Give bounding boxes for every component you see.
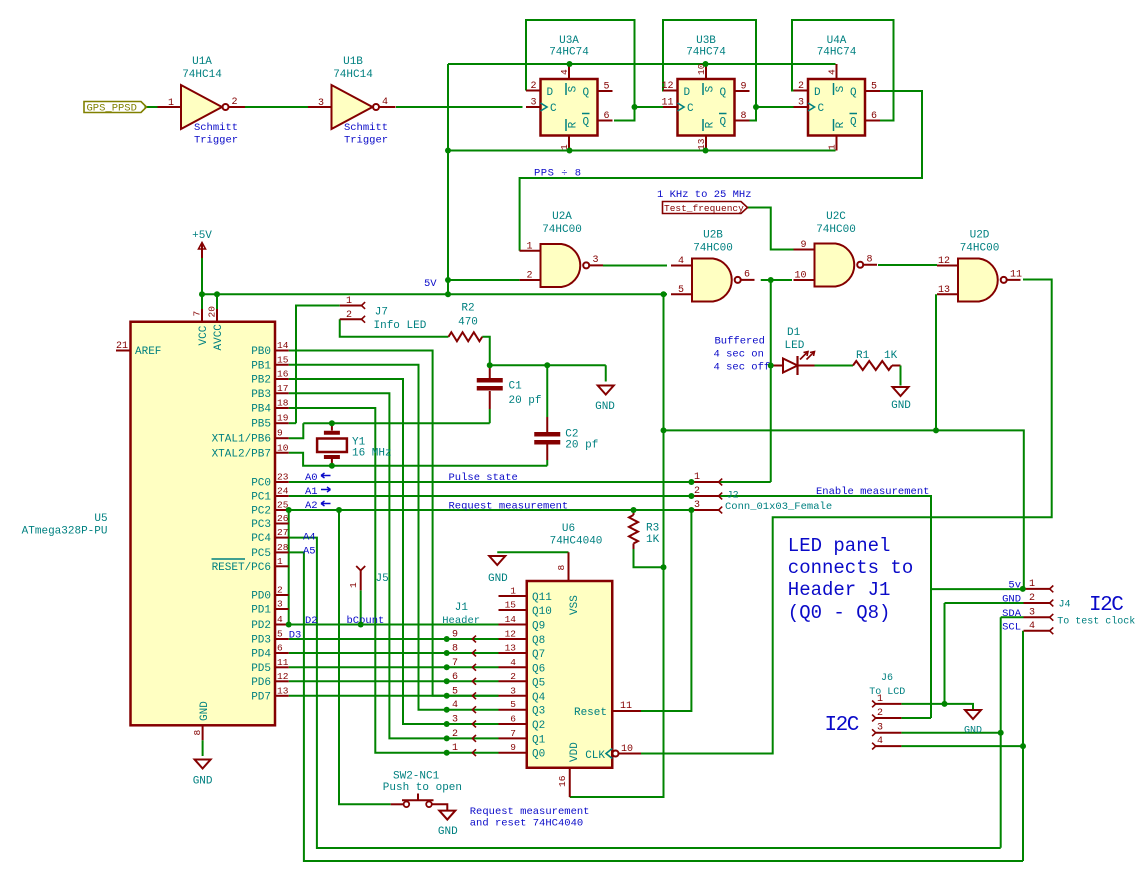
svg-text:Buffered: Buffered xyxy=(715,336,765,348)
svg-text:I2C: I2C xyxy=(825,714,859,737)
svg-text:PC3: PC3 xyxy=(251,519,271,531)
svg-text:9: 9 xyxy=(800,240,806,251)
svg-text:PC4: PC4 xyxy=(251,533,271,545)
svg-text:To test clock: To test clock xyxy=(1057,616,1135,628)
svg-text:2: 2 xyxy=(526,271,532,282)
svg-text:VCC: VCC xyxy=(198,325,210,345)
svg-text:U5: U5 xyxy=(94,513,107,525)
svg-text:Header J1: Header J1 xyxy=(788,579,891,601)
svg-text:16: 16 xyxy=(557,775,568,787)
svg-text:5: 5 xyxy=(871,82,877,93)
svg-text:I2C: I2C xyxy=(1089,594,1123,617)
svg-text:14: 14 xyxy=(277,340,289,351)
svg-text:21: 21 xyxy=(116,341,128,352)
svg-text:1: 1 xyxy=(877,694,883,705)
svg-text:R1: R1 xyxy=(856,350,870,362)
svg-text:PD5: PD5 xyxy=(251,663,271,675)
svg-text:2: 2 xyxy=(877,708,883,719)
svg-text:R: R xyxy=(835,121,847,128)
svg-text:PC0: PC0 xyxy=(251,478,271,490)
svg-text:Q: Q xyxy=(583,87,590,99)
svg-text:9: 9 xyxy=(452,630,458,641)
svg-text:74HC74: 74HC74 xyxy=(549,47,589,59)
svg-text:D1: D1 xyxy=(787,327,801,339)
svg-text:1: 1 xyxy=(348,582,359,588)
svg-text:6: 6 xyxy=(510,714,516,725)
svg-text:Q9: Q9 xyxy=(532,621,545,633)
svg-text:SCL: SCL xyxy=(1002,621,1021,633)
svg-text:1: 1 xyxy=(510,586,516,597)
svg-text:A4: A4 xyxy=(303,532,316,544)
svg-text:PPS ÷ 8: PPS ÷ 8 xyxy=(534,168,582,180)
svg-text:5: 5 xyxy=(510,699,516,710)
svg-text:2: 2 xyxy=(1029,593,1035,604)
svg-text:GND: GND xyxy=(199,701,211,721)
svg-text:1K: 1K xyxy=(884,350,898,362)
svg-text:C: C xyxy=(687,103,694,115)
svg-text:To LCD: To LCD xyxy=(869,687,905,698)
svg-text:S: S xyxy=(835,85,847,92)
svg-text:1: 1 xyxy=(827,144,838,150)
svg-text:Q4: Q4 xyxy=(532,692,546,704)
svg-text:U3B: U3B xyxy=(696,35,716,47)
svg-text:Q5: Q5 xyxy=(532,677,545,689)
svg-text:U1A: U1A xyxy=(192,56,212,68)
svg-text:9: 9 xyxy=(741,82,747,93)
svg-text:1 KHz to 25 MHz: 1 KHz to 25 MHz xyxy=(657,189,752,201)
svg-text:A5: A5 xyxy=(303,546,316,558)
svg-text:VSS: VSS xyxy=(569,595,581,615)
svg-text:Q: Q xyxy=(720,87,727,99)
svg-text:2: 2 xyxy=(232,97,238,108)
svg-text:19: 19 xyxy=(277,413,289,424)
svg-text:PB3: PB3 xyxy=(251,389,271,401)
svg-text:2: 2 xyxy=(694,486,700,497)
svg-text:SW2-NC1: SW2-NC1 xyxy=(393,770,440,782)
svg-text:3: 3 xyxy=(877,723,883,734)
svg-text:2: 2 xyxy=(510,671,516,682)
svg-text:74HC14: 74HC14 xyxy=(333,69,373,81)
svg-text:Q10: Q10 xyxy=(532,606,552,618)
svg-text:Request measurement: Request measurement xyxy=(449,501,569,513)
svg-text:Enable measurement: Enable measurement xyxy=(816,486,929,498)
svg-text:17: 17 xyxy=(277,383,288,394)
svg-text:12: 12 xyxy=(661,81,673,92)
svg-text:18: 18 xyxy=(277,398,289,409)
svg-text:16 MHz: 16 MHz xyxy=(352,448,392,460)
svg-text:PB4: PB4 xyxy=(251,404,271,416)
svg-text:PB5: PB5 xyxy=(251,419,271,431)
svg-text:3: 3 xyxy=(277,599,283,610)
svg-text:4: 4 xyxy=(827,69,838,75)
svg-text:D: D xyxy=(814,87,821,99)
svg-text:J1: J1 xyxy=(455,602,469,614)
svg-text:11: 11 xyxy=(620,701,632,712)
svg-text:3: 3 xyxy=(318,98,324,109)
svg-text:74HC14: 74HC14 xyxy=(182,69,222,81)
svg-text:PC5: PC5 xyxy=(251,548,271,560)
svg-text:Q7: Q7 xyxy=(532,649,545,661)
svg-text:5: 5 xyxy=(452,686,458,697)
svg-text:R3: R3 xyxy=(646,523,659,535)
svg-text:Schmitt: Schmitt xyxy=(194,122,238,134)
svg-text:and reset 74HC4040: and reset 74HC4040 xyxy=(470,818,583,830)
svg-text:13: 13 xyxy=(277,685,289,696)
svg-text:Q8: Q8 xyxy=(532,635,545,647)
svg-text:U2D: U2D xyxy=(970,230,990,242)
svg-text:10: 10 xyxy=(794,271,806,282)
svg-text:8: 8 xyxy=(192,730,203,736)
svg-text:26: 26 xyxy=(277,513,289,524)
svg-text:PD6: PD6 xyxy=(251,677,271,689)
svg-text:AVCC: AVCC xyxy=(213,324,225,351)
svg-text:GND: GND xyxy=(1002,594,1021,606)
svg-text:PD3: PD3 xyxy=(251,635,271,647)
svg-text:8: 8 xyxy=(556,565,567,571)
svg-text:4 sec on: 4 sec on xyxy=(714,349,764,361)
svg-text:XTAL1/PB6: XTAL1/PB6 xyxy=(212,434,271,446)
svg-text:9: 9 xyxy=(510,742,516,753)
svg-text:5: 5 xyxy=(604,82,610,93)
svg-text:R: R xyxy=(568,121,580,128)
svg-text:J6: J6 xyxy=(881,673,893,684)
svg-text:Q3: Q3 xyxy=(532,706,545,718)
svg-text:27: 27 xyxy=(277,527,288,538)
svg-text:5V: 5V xyxy=(424,278,437,290)
svg-text:8: 8 xyxy=(452,644,458,655)
svg-text:bCount: bCount xyxy=(347,615,385,627)
svg-text:6: 6 xyxy=(277,643,283,654)
svg-text:1: 1 xyxy=(346,296,352,307)
svg-text:6: 6 xyxy=(452,672,458,683)
svg-text:11: 11 xyxy=(277,657,289,668)
svg-text:S: S xyxy=(568,85,580,92)
svg-text:XTAL2/PB7: XTAL2/PB7 xyxy=(212,448,271,460)
svg-text:3: 3 xyxy=(1029,607,1035,618)
svg-text:4: 4 xyxy=(510,657,516,668)
svg-text:1: 1 xyxy=(526,241,532,252)
svg-text:4: 4 xyxy=(1029,621,1035,632)
svg-text:RESET/PC6: RESET/PC6 xyxy=(212,562,271,574)
svg-text:GPS_PPSD: GPS_PPSD xyxy=(87,103,137,115)
svg-text:28: 28 xyxy=(277,542,289,553)
svg-text:Q0: Q0 xyxy=(532,749,545,761)
svg-text:4: 4 xyxy=(452,700,458,711)
svg-text:14: 14 xyxy=(505,614,517,625)
svg-text:Q11: Q11 xyxy=(532,592,552,604)
svg-text:U3A: U3A xyxy=(559,35,579,47)
svg-text:Info LED: Info LED xyxy=(374,320,427,332)
svg-text:74HC00: 74HC00 xyxy=(960,243,1000,255)
svg-text:8: 8 xyxy=(867,254,873,265)
svg-text:A1: A1 xyxy=(305,486,318,498)
svg-text:CLK: CLK xyxy=(585,750,605,762)
svg-text:11: 11 xyxy=(1010,269,1022,280)
svg-text:16: 16 xyxy=(277,369,289,380)
svg-text:J4: J4 xyxy=(1059,600,1071,611)
svg-text:Q2: Q2 xyxy=(532,720,545,732)
svg-text:3: 3 xyxy=(593,255,599,266)
svg-text:2: 2 xyxy=(530,81,536,92)
svg-text:D3: D3 xyxy=(289,630,302,642)
svg-text:4: 4 xyxy=(678,256,684,267)
svg-text:PD2: PD2 xyxy=(251,620,271,632)
svg-text:Q: Q xyxy=(850,117,857,129)
svg-text:74HC00: 74HC00 xyxy=(693,243,733,255)
svg-text:5: 5 xyxy=(277,629,283,640)
svg-text:PD7: PD7 xyxy=(251,691,271,703)
svg-text:8: 8 xyxy=(741,111,747,122)
svg-text:10: 10 xyxy=(277,442,289,453)
svg-text:74HC4040: 74HC4040 xyxy=(550,536,603,548)
svg-text:3: 3 xyxy=(798,98,804,109)
svg-text:3: 3 xyxy=(452,715,458,726)
svg-text:J2: J2 xyxy=(727,491,739,502)
svg-text:7: 7 xyxy=(192,311,203,317)
svg-text:C1: C1 xyxy=(509,381,523,393)
svg-text:GND: GND xyxy=(488,573,508,585)
svg-text:7: 7 xyxy=(510,728,516,739)
svg-text:12: 12 xyxy=(938,256,950,267)
svg-text:S: S xyxy=(705,85,717,92)
svg-text:D2: D2 xyxy=(305,615,318,627)
svg-text:GND: GND xyxy=(438,826,458,838)
svg-text:PC2: PC2 xyxy=(251,506,271,518)
svg-text:Q6: Q6 xyxy=(532,663,545,675)
svg-text:U2B: U2B xyxy=(703,230,723,242)
svg-text:U4A: U4A xyxy=(827,35,847,47)
svg-text:J7: J7 xyxy=(375,307,388,319)
svg-text:5: 5 xyxy=(678,285,684,296)
svg-text:LED: LED xyxy=(785,340,805,352)
svg-text:GND: GND xyxy=(891,400,911,412)
svg-text:11: 11 xyxy=(661,98,673,109)
svg-text:4: 4 xyxy=(559,69,570,75)
svg-text:Header: Header xyxy=(442,615,480,627)
svg-text:D: D xyxy=(547,87,554,99)
svg-text:Q: Q xyxy=(720,117,727,129)
svg-text:Push to open: Push to open xyxy=(383,782,462,794)
svg-text:24: 24 xyxy=(277,486,289,497)
svg-text:Test_frequency: Test_frequency xyxy=(664,203,744,214)
svg-text:PD0: PD0 xyxy=(251,591,271,603)
svg-text:74HC74: 74HC74 xyxy=(817,47,857,59)
svg-text:PB2: PB2 xyxy=(251,375,271,387)
svg-text:Reset: Reset xyxy=(574,707,607,719)
svg-text:Q1: Q1 xyxy=(532,734,546,746)
svg-text:PD4: PD4 xyxy=(251,649,271,661)
svg-text:R2: R2 xyxy=(461,303,474,315)
svg-text:9: 9 xyxy=(277,428,283,439)
svg-text:10: 10 xyxy=(621,744,633,755)
svg-text:Request measurement: Request measurement xyxy=(470,806,590,818)
svg-text:13: 13 xyxy=(938,285,950,296)
svg-text:Pulse state: Pulse state xyxy=(449,472,518,484)
svg-text:PD1: PD1 xyxy=(251,605,271,617)
svg-text:C: C xyxy=(550,103,557,115)
svg-text:PC1: PC1 xyxy=(251,492,271,504)
svg-text:6: 6 xyxy=(871,111,877,122)
svg-text:1K: 1K xyxy=(646,534,660,546)
svg-text:1: 1 xyxy=(694,472,700,483)
svg-text:5v: 5v xyxy=(1008,579,1021,591)
svg-text:1: 1 xyxy=(277,556,283,567)
svg-text:74HC74: 74HC74 xyxy=(686,47,726,59)
svg-text:Schmitt: Schmitt xyxy=(344,122,388,134)
svg-text:20 pf: 20 pf xyxy=(565,440,598,452)
svg-text:6: 6 xyxy=(604,111,610,122)
svg-text:74HC00: 74HC00 xyxy=(816,224,856,236)
svg-text:SDA: SDA xyxy=(1002,608,1022,620)
svg-text:VDD: VDD xyxy=(569,742,581,762)
svg-text:GND: GND xyxy=(964,726,982,737)
svg-text:(Q0 - Q8): (Q0 - Q8) xyxy=(788,602,891,624)
svg-text:20: 20 xyxy=(207,306,218,318)
svg-text:4: 4 xyxy=(877,736,883,747)
svg-text:Conn_01x03_Female: Conn_01x03_Female xyxy=(725,501,832,513)
svg-text:connects to: connects to xyxy=(788,557,913,579)
svg-text:20 pf: 20 pf xyxy=(509,395,542,407)
svg-text:6: 6 xyxy=(744,269,750,280)
svg-text:12: 12 xyxy=(277,671,289,682)
svg-text:LED panel: LED panel xyxy=(788,535,891,557)
svg-text:GND: GND xyxy=(595,401,615,413)
svg-text:2: 2 xyxy=(452,729,458,740)
svg-text:U2C: U2C xyxy=(826,211,846,223)
svg-text:2: 2 xyxy=(277,585,283,596)
svg-text:12: 12 xyxy=(505,629,517,640)
svg-text:4: 4 xyxy=(382,97,388,108)
svg-text:23: 23 xyxy=(277,472,289,483)
svg-text:PB1: PB1 xyxy=(251,360,271,372)
svg-text:ATmega328P-PU: ATmega328P-PU xyxy=(22,526,108,538)
svg-text:U6: U6 xyxy=(562,523,575,535)
svg-text:Q: Q xyxy=(850,87,857,99)
svg-text:Trigger: Trigger xyxy=(194,135,238,147)
svg-text:13: 13 xyxy=(505,643,517,654)
svg-text:D: D xyxy=(684,87,691,99)
svg-text:3: 3 xyxy=(694,500,700,511)
svg-text:Trigger: Trigger xyxy=(344,135,388,147)
svg-text:AREF: AREF xyxy=(135,346,161,358)
svg-text:GND: GND xyxy=(193,776,213,788)
svg-text:PB0: PB0 xyxy=(251,346,271,358)
svg-text:+5V: +5V xyxy=(192,230,212,242)
svg-text:A0: A0 xyxy=(305,472,318,484)
svg-text:U1B: U1B xyxy=(343,56,363,68)
svg-text:A2: A2 xyxy=(305,500,318,512)
svg-text:Q: Q xyxy=(583,117,590,129)
svg-text:R: R xyxy=(705,121,717,128)
svg-text:470: 470 xyxy=(458,317,478,329)
svg-text:74HC00: 74HC00 xyxy=(542,224,582,236)
svg-text:3: 3 xyxy=(530,98,536,109)
svg-text:4 sec off: 4 sec off xyxy=(714,362,771,374)
svg-text:2: 2 xyxy=(798,81,804,92)
svg-text:2: 2 xyxy=(346,310,352,321)
svg-text:4: 4 xyxy=(277,614,283,625)
svg-text:1: 1 xyxy=(452,743,458,754)
svg-text:1: 1 xyxy=(1029,579,1035,590)
svg-text:15: 15 xyxy=(277,354,289,365)
svg-text:7: 7 xyxy=(452,658,458,669)
svg-text:1: 1 xyxy=(168,98,174,109)
svg-text:C: C xyxy=(818,103,825,115)
svg-text:U2A: U2A xyxy=(552,211,572,223)
svg-text:3: 3 xyxy=(510,685,516,696)
svg-text:J5: J5 xyxy=(376,573,389,585)
svg-text:15: 15 xyxy=(505,600,517,611)
